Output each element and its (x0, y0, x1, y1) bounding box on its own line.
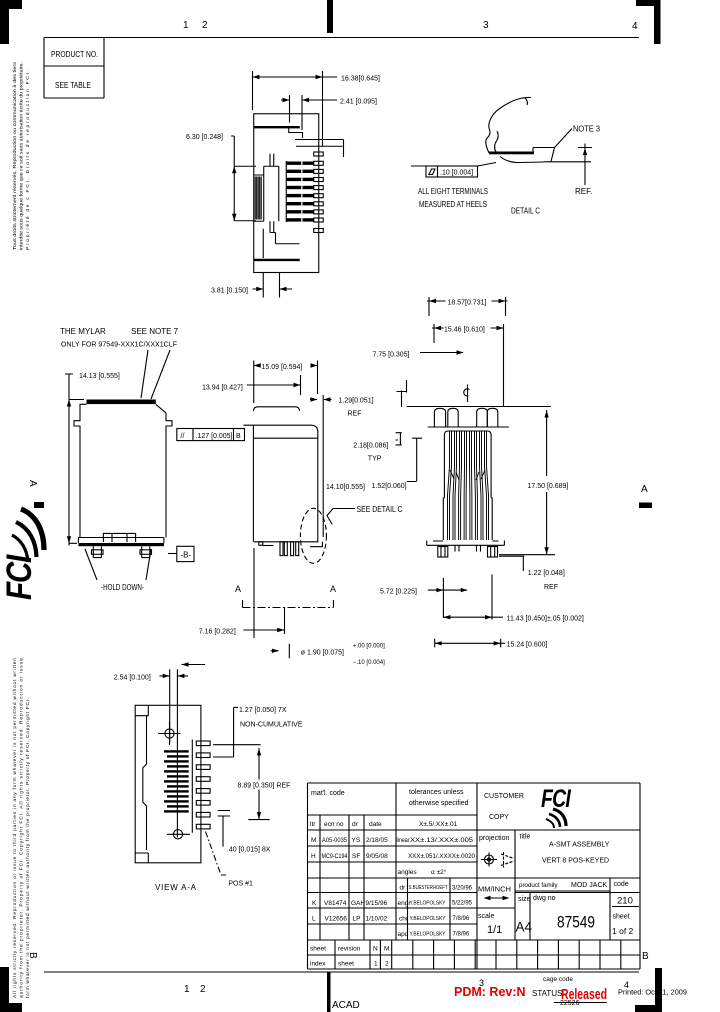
svg-text:revision: revision (338, 946, 361, 953)
svg-text:1/1: 1/1 (487, 924, 502, 936)
product family row (519, 881, 629, 889)
top view middle contact comb (286, 161, 301, 222)
svg-text:MEASURED AT HEELS: MEASURED AT HEELS (419, 200, 487, 209)
dimension 15.24 [0.600] (435, 639, 548, 649)
svg-text:TYP: TYP (368, 456, 382, 463)
dimension .40 [0.015] 8X (218, 811, 271, 854)
product no table (44, 38, 104, 99)
svg-text:NON-CUMULATIVE: NON-CUMULATIVE (240, 722, 303, 729)
svg-text:3: 3 (483, 20, 489, 31)
svg-text:1.22 [0.048]: 1.22 [0.048] (528, 570, 565, 577)
svg-text:sheet: sheet (338, 961, 354, 968)
svg-text:3.81 [0.150]: 3.81 [0.150] (211, 288, 248, 295)
status released stamp (532, 976, 607, 1007)
svg-text:tolerances unless: tolerances unless (409, 789, 464, 796)
svg-text:5/22/95: 5/22/95 (452, 901, 473, 907)
svg-text:+.00 [0.000]: +.00 [0.000] (353, 644, 385, 650)
side view base plate (78, 538, 163, 547)
rear view sub line (428, 426, 509, 428)
pdm rev stamp (454, 985, 526, 999)
section A-A cut line (235, 584, 336, 608)
svg-text:YS: YS (352, 837, 361, 844)
side view body outline (74, 404, 172, 537)
svg-text:A4: A4 (516, 920, 533, 935)
dimension 1.29[0.051] REF (310, 391, 407, 418)
svg-text:Y.BELOPOLSKY: Y.BELOPOLSKY (410, 916, 446, 922)
zone numbers bottom (184, 978, 629, 995)
svg-text:210: 210 (617, 896, 633, 907)
svg-text:dr: dr (352, 821, 359, 828)
svg-text:THE MYLAR: THE MYLAR (60, 327, 106, 336)
svg-text:13.94 [0.427]: 13.94 [0.427] (202, 385, 243, 392)
dimension 8.89 [0.350] REF (238, 748, 291, 820)
dimension 6.30 [0.248] (186, 134, 256, 221)
svg-text:VERT 8 POS-KEYED: VERT 8 POS-KEYED (542, 858, 609, 865)
svg-text:9/15/96: 9/15/96 (366, 900, 388, 907)
svg-text:2.41 [0.095]: 2.41 [0.095] (340, 99, 377, 106)
svg-text:16.38[0.645]: 16.38[0.645] (341, 76, 380, 83)
svg-text:2.18[0.086]: 2.18[0.086] (353, 443, 388, 450)
svg-text:.127 [0.005]: .127 [0.005] (196, 433, 233, 440)
dimension 3.81 [0.150] (211, 273, 292, 298)
svg-text:linear: linear (397, 837, 411, 844)
dimension 2.54 [0.100] (114, 669, 188, 837)
title block header texts (311, 789, 469, 807)
top view keying notch (264, 154, 279, 167)
pos #1 label (206, 832, 254, 888)
svg-text:−.10 [0.004]: −.10 [0.004] (353, 660, 385, 666)
svg-text:2: 2 (385, 961, 389, 968)
dimension 17.50 [0.689] (499, 410, 568, 555)
svg-text:2.54 [0.100]: 2.54 [0.100] (114, 675, 151, 682)
svg-text:ecn no: ecn no (324, 821, 344, 828)
zone letter A right (641, 484, 648, 495)
top view right contact comb (303, 162, 314, 222)
svg-text:REF.: REF. (575, 187, 592, 196)
mm/inch cell (478, 885, 511, 901)
parallelism feature frame (177, 429, 245, 441)
acad label (332, 1000, 360, 1011)
detail C terminal curve (486, 97, 531, 153)
dimension 2.18[0.086] TYP (353, 433, 402, 463)
svg-text:STATUS:: STATUS: (532, 989, 565, 998)
dimension 7.75 [0.305] (373, 350, 464, 392)
top view body outline (254, 114, 319, 273)
svg-text:7/8/96: 7/8/96 (453, 916, 470, 922)
detail C heel block (533, 148, 555, 162)
svg-text:3/20/96: 3/20/96 (452, 886, 473, 892)
svg-text:otherwise specified: otherwise specified (409, 800, 469, 807)
svg-text:SEE NOTE 7: SEE NOTE 7 (131, 327, 179, 336)
svg-text:dr: dr (400, 885, 407, 892)
revision table rows (310, 821, 476, 938)
svg-text:15.46 [0.610]: 15.46 [0.610] (444, 327, 485, 334)
mylar leader lines (141, 350, 170, 399)
see detail c label and leader (327, 505, 403, 524)
corner mark top-right (636, 0, 661, 44)
svg-text:Y.BELOPOLSKY: Y.BELOPOLSKY (410, 901, 446, 907)
detail C label (511, 207, 540, 216)
corner mark bottom-right (635, 968, 662, 1012)
note the mylar see note 7 (60, 327, 179, 349)
view A-A terminal tabs (196, 741, 210, 829)
svg-text:7/8/96: 7/8/96 (453, 932, 470, 938)
svg-text:XXX±.051/.XXXX±.0020: XXX±.051/.XXXX±.0020 (408, 854, 476, 860)
svg-text:REF: REF (544, 584, 558, 591)
svg-text:2/18/05: 2/18/05 (366, 837, 388, 844)
zone letter B left (rotated) (27, 952, 38, 959)
svg-text:projection: projection (479, 835, 509, 842)
svg-text:M: M (384, 946, 389, 953)
svg-text:V81474: V81474 (324, 900, 347, 907)
svg-text:.40 [0.015] 8X: .40 [0.015] 8X (227, 847, 271, 854)
svg-text:87549: 87549 (557, 913, 595, 932)
size dwg cells (516, 895, 634, 936)
svg-text:H: H (311, 853, 316, 860)
svg-text:LP: LP (353, 916, 361, 923)
dimension 1.27 [0.050] 7X (213, 707, 303, 757)
svg-text:8.89 [0.350] REF: 8.89 [0.350] REF (238, 783, 291, 790)
svg-text:interdite sous quelque forme: interdite sous quelque forme que ce soit… (19, 62, 25, 250)
profile view smt pins (280, 542, 299, 556)
svg-text:A: A (641, 484, 648, 495)
left margin copyright text top (12, 61, 31, 250)
svg-text:sheet: sheet (310, 946, 326, 953)
dimension 11.43 (443, 575, 584, 623)
svg-text:code: code (614, 881, 629, 888)
view A-A top hole (158, 722, 181, 745)
svg-text:index: index (310, 961, 326, 968)
svg-text:1.52[0.060]: 1.52[0.060] (372, 483, 407, 490)
svg-text:NOTE 3: NOTE 3 (573, 125, 601, 134)
svg-text:SEE DETAIL C: SEE DETAIL C (357, 505, 403, 514)
title cell (520, 834, 610, 865)
dimension 14.10[0.555] (326, 484, 365, 491)
rear view top line (407, 406, 551, 408)
svg-text://: // (181, 433, 185, 440)
rear view wires (448, 431, 489, 540)
printed date (618, 988, 687, 997)
detail c dashed ellipse (300, 508, 326, 563)
svg-text:15.24 [0.600]: 15.24 [0.600] (507, 642, 548, 649)
profile view lid arc (254, 407, 300, 411)
svg-text:FCI: FCI (0, 554, 39, 600)
dimension 18.57[0.731] (427, 297, 508, 316)
left margin copyright text bottom (12, 658, 31, 998)
svg-text:7.75 [0.305]: 7.75 [0.305] (373, 352, 410, 359)
FCI logo title block (541, 785, 572, 828)
side view left leg (92, 546, 104, 557)
svg-text:18.57[0.731]: 18.57[0.731] (448, 300, 487, 307)
svg-text:11.43 [0.450]±.05 [0.002]: 11.43 [0.450]±.05 [0.002] (507, 616, 584, 623)
svg-text:Released: Released (561, 986, 607, 1003)
centre tick top (327, 0, 333, 33)
side view right leg (140, 546, 152, 557)
side view mylar strip (87, 400, 156, 405)
svg-text:14.13 [0.555]: 14.13 [0.555] (79, 373, 120, 380)
dimension 15.09 [0.594] (254, 361, 318, 404)
profile view top band (244, 425, 318, 542)
svg-text:MC9-C194: MC9-C194 (322, 853, 348, 860)
svg-text:ALL EIGHT TERMINALS: ALL EIGHT TERMINALS (418, 187, 488, 196)
svg-text:PRODUCT NO.: PRODUCT NO. (51, 50, 98, 59)
svg-text:1 of 2: 1 of 2 (612, 926, 634, 936)
view A-A label (155, 883, 197, 892)
svg-text:GAH: GAH (351, 900, 365, 907)
title block grid lines (308, 783, 641, 969)
top view tongue (264, 166, 279, 221)
svg-text:B: B (236, 433, 241, 440)
zone letter A left (rotated) (27, 480, 38, 487)
projection cell (479, 835, 514, 868)
svg-text:sheet: sheet (613, 914, 630, 921)
svg-text:1: 1 (374, 961, 378, 968)
svg-text:PDM: Rev:N: PDM: Rev:N (454, 985, 526, 999)
svg-text:size: size (518, 896, 531, 903)
view A-A bottom hole (167, 830, 190, 839)
svg-text:1.27 [0.050] 7X: 1.27 [0.050] 7X (239, 707, 287, 714)
svg-text:B: B (642, 951, 649, 962)
svg-text:17.50 [0.689]: 17.50 [0.689] (528, 483, 569, 490)
datum B box (168, 546, 194, 561)
dimension 14.13 [0.555] (65, 373, 120, 546)
svg-text:7.16 [0.282]: 7.16 [0.282] (199, 629, 236, 636)
top view lower step (263, 221, 299, 258)
svg-text:title: title (520, 834, 531, 841)
top view key step (289, 128, 303, 138)
svg-text:K: K (312, 900, 317, 907)
svg-text:POS #1: POS #1 (228, 881, 253, 888)
centre tick bottom (327, 972, 331, 1012)
scale cell (478, 913, 502, 936)
svg-text:14.10[0.555]: 14.10[0.555] (326, 484, 365, 491)
svg-text:2: 2 (202, 20, 208, 31)
svg-text:ltr: ltr (310, 821, 316, 828)
svg-text:date: date (369, 821, 382, 828)
svg-text:-HOLD DOWN-: -HOLD DOWN- (101, 583, 144, 592)
svg-text:N: N (373, 946, 378, 953)
svg-text:XX±.13/.XXX±.005: XX±.13/.XXX±.005 (410, 837, 473, 844)
corner mark top-left (0, 0, 22, 44)
svg-text:.10 [0.004]: .10 [0.004] (440, 170, 473, 177)
detail C under curve (500, 157, 544, 163)
svg-text:5.72 [0.225]: 5.72 [0.225] (380, 589, 417, 596)
svg-text:Y.BELOPOLSKY: Y.BELOPOLSKY (410, 932, 446, 938)
svg-text:form whatever is not permitted: form whatever is not permitted without w… (25, 698, 31, 998)
svg-text:dwg no: dwg no (533, 895, 556, 902)
svg-text:cage code: cage code (543, 976, 573, 983)
svg-text:product family: product family (519, 882, 558, 889)
dimension 5.72 [0.225] (380, 578, 468, 618)
svg-text:S.BUESTERHOEFT: S.BUESTERHOEFT (409, 885, 449, 891)
frame top border line (44, 37, 639, 39)
svg-text:COPY: COPY (489, 814, 509, 821)
stray arrow left (182, 662, 206, 666)
svg-text:15.09 [0.594]: 15.09 [0.594] (262, 364, 303, 371)
dimension 1.22 [0.048] REF (499, 556, 565, 591)
svg-text:SEE TABLE: SEE TABLE (55, 81, 91, 90)
dimension 15.46 [0.610] (432, 324, 504, 406)
left margin FCI logo rotated (0, 509, 44, 600)
svg-text:A: A (330, 584, 336, 594)
rear view bumps (434, 408, 497, 426)
dimension 16.38[0.645] (253, 71, 380, 146)
svg-text:L: L (312, 916, 316, 923)
svg-text:A: A (235, 584, 241, 594)
top view mylar edge thick top (254, 126, 300, 128)
detail C flatness feature frame (411, 163, 496, 178)
hold down label and leaders (85, 549, 151, 592)
svg-text:MM/INCH: MM/INCH (478, 885, 511, 894)
svg-text:V12656: V12656 (325, 916, 348, 923)
svg-text:A05-0035: A05-0035 (322, 837, 347, 844)
svg-text:ACAD: ACAD (332, 1000, 360, 1011)
view A-A slot lines (191, 740, 193, 833)
zone numbers top (183, 20, 638, 32)
svg-text:SF: SF (352, 853, 360, 860)
frame bottom border line (44, 971, 639, 973)
svg-text:scale: scale (478, 913, 494, 920)
svg-text:ONLY FOR 97549-XXX1C/XXX1CLF: ONLY FOR 97549-XXX1C/XXX1CLF (61, 342, 177, 349)
dimension 1.52[0.060] (372, 438, 423, 490)
svg-text:X±.5/.XX±.01: X±.5/.XX±.01 (419, 821, 458, 828)
svg-text:angles: angles (398, 869, 418, 876)
svg-text:1: 1 (183, 20, 189, 31)
svg-text:chr: chr (399, 916, 409, 923)
svg-text:2: 2 (200, 984, 206, 995)
detail C ref line (575, 144, 592, 197)
detail C seating line (544, 161, 591, 163)
svg-text:1: 1 (184, 984, 190, 995)
svg-text:authority from the proprietor.: authority from the proprietor. Property … (19, 658, 25, 998)
detail C note all eight terminals (418, 187, 488, 209)
detail C terminal flat thick bar (489, 152, 534, 155)
svg-text:Tous droits strictement réserv: Tous droits strictement réservés. Reprod… (12, 61, 18, 250)
svg-text:6.30 [0.248]: 6.30 [0.248] (186, 134, 223, 141)
detail C note 3 leader (555, 125, 601, 148)
sheet index rows (310, 946, 389, 968)
centerline symbol (464, 385, 470, 403)
svg-text:MOD JACK: MOD JACK (571, 882, 608, 889)
view A-A left inner contour (143, 716, 147, 850)
svg-text:mat'l. code: mat'l. code (311, 790, 345, 797)
rear view comb body (443, 431, 492, 540)
side view center tabs (103, 533, 135, 542)
top view thick bottom line (254, 259, 300, 261)
svg-text:M: M (311, 837, 316, 844)
dimension 7.16 [0.282] (199, 548, 285, 638)
svg-text:Propriété de c FCI. Droits: Propriété de c FCI. Droits de reproducti… (25, 70, 31, 250)
svg-text:9/05/08: 9/05/08 (366, 853, 388, 860)
svg-text:CUSTOMER: CUSTOMER (484, 793, 524, 800)
svg-text:ø 1.90 [0.075]: ø 1.90 [0.075] (301, 650, 344, 657)
view A-A contact comb (164, 750, 189, 812)
view A-A body outline (135, 705, 201, 863)
dimension 2.41 [0.095] (281, 95, 377, 130)
svg-text:All rights strictly reserved.: All rights strictly reserved. Reproducti… (12, 658, 18, 998)
svg-text:REF: REF (348, 411, 362, 418)
dimension dia 1.90 (271, 644, 385, 667)
zone dash left (34, 502, 44, 508)
dimension 13.94 [0.427] (202, 375, 301, 395)
zone dash right (639, 503, 652, 509)
svg-text:α ±2°: α ±2° (431, 868, 447, 876)
svg-text:1.29[0.051]: 1.29[0.051] (339, 398, 374, 405)
corner mark bottom-left (0, 967, 22, 1012)
top view 1.27 gap lines (295, 140, 344, 158)
svg-text:1/10/02: 1/10/02 (366, 916, 388, 923)
svg-text:Printed: Oct 11, 2009: Printed: Oct 11, 2009 (618, 988, 687, 997)
svg-text:VIEW A-A: VIEW A-A (155, 883, 197, 892)
profile view right tab (310, 542, 322, 547)
svg-text:A: A (27, 480, 38, 487)
profile view bottom (254, 541, 318, 543)
rear view feet (438, 545, 498, 557)
svg-text:-B-: -B- (181, 551, 192, 560)
rear view base (427, 541, 505, 546)
zone letter B right (642, 951, 649, 962)
profile view left wall (252, 425, 254, 542)
svg-text:A-SMT ASSEMBLY: A-SMT ASSEMBLY (549, 842, 610, 849)
rear view wire bend hatch (450, 470, 485, 480)
svg-text:4: 4 (632, 21, 638, 32)
top view front comb block (254, 175, 264, 221)
top view terminal tabs (314, 152, 324, 233)
profile view bottom tabs (259, 542, 274, 546)
svg-text:apd: apd (398, 931, 409, 938)
svg-text:DETAIL C: DETAIL C (511, 207, 540, 216)
customer copy cell (484, 793, 524, 821)
profile view outer right wall (322, 395, 324, 537)
